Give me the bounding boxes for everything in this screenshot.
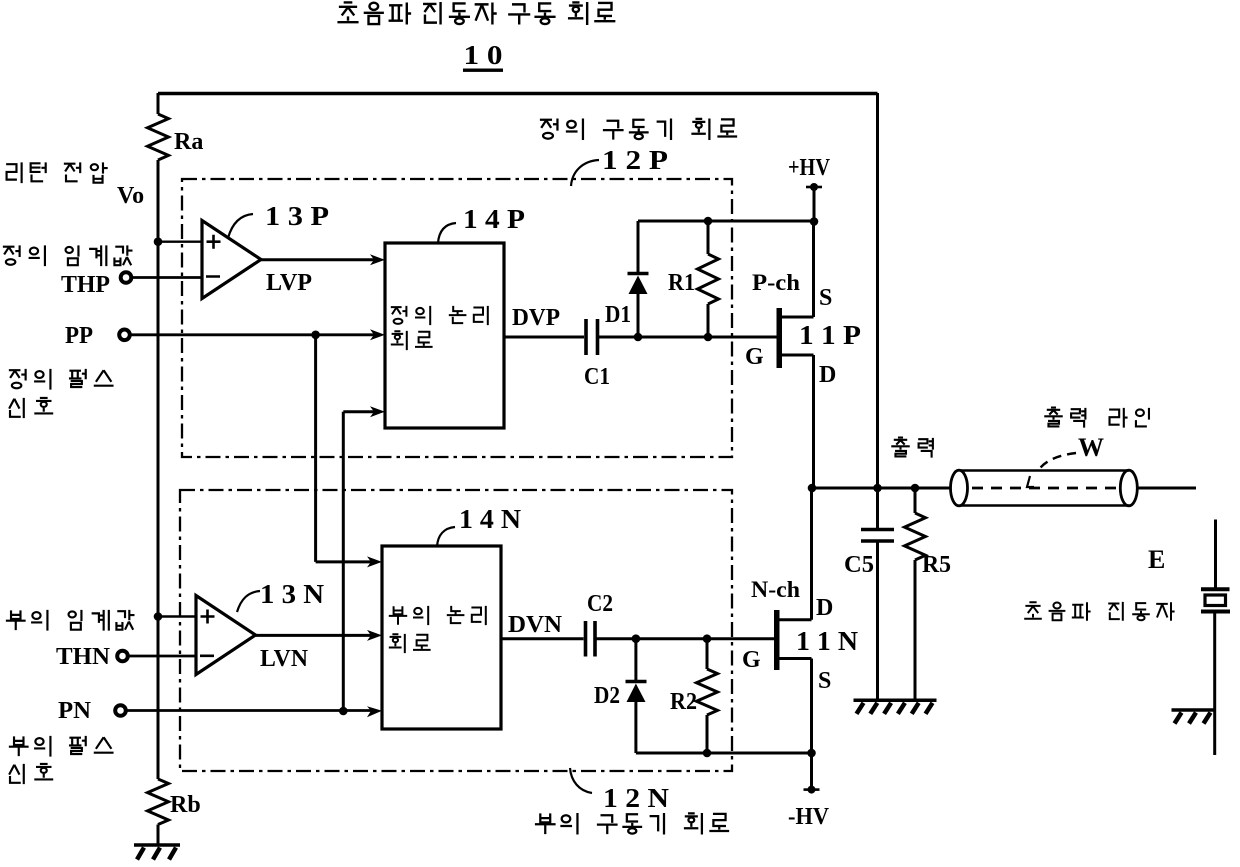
resistor R5 xyxy=(914,488,917,513)
node output drain junction xyxy=(808,484,817,493)
svg-text:1 3 N: 1 3 N xyxy=(260,579,325,609)
wire 11P source vertical xyxy=(812,221,815,317)
wire output after coax xyxy=(1138,487,1197,490)
terminal PN xyxy=(115,705,126,716)
node D2 top xyxy=(632,634,641,643)
svg-text:1 0: 1 0 xyxy=(464,40,503,70)
svg-text:R1: R1 xyxy=(668,270,695,296)
wire gate line to R1 node xyxy=(638,336,708,339)
wire C2 to gate node xyxy=(597,637,636,640)
svg-text:Rb: Rb xyxy=(170,792,201,818)
label positive driver circuit (정의 구동기 회로) xyxy=(540,118,558,138)
label negative logic (부의 논리) xyxy=(389,606,407,624)
wire top feedback line xyxy=(158,92,878,96)
driver box 12N (dash-dot border) xyxy=(180,490,732,771)
svg-text:C1: C1 xyxy=(584,364,610,390)
leader to 14N xyxy=(437,527,455,546)
ground under C5 R5 xyxy=(854,699,937,703)
wire gate line to 11N gate xyxy=(707,637,775,640)
svg-text:PP: PP xyxy=(65,323,93,349)
driver box 12P (dash-dot border) xyxy=(182,179,732,457)
label output line (출력 라인) xyxy=(1044,408,1062,427)
wire C1 to gate node xyxy=(599,336,638,339)
label negative logic line2 (회로) xyxy=(389,634,405,653)
svg-text:1 1 P: 1 1 P xyxy=(799,320,861,350)
node R2 bottom xyxy=(703,749,712,758)
wire PP branch to 14N first input xyxy=(316,560,371,563)
wire left main vertical (Vo rail) xyxy=(157,160,160,779)
wire PN up branch xyxy=(342,412,345,712)
wire right feedback vertical xyxy=(876,93,879,528)
node R2 top xyxy=(703,634,712,643)
node R1 top xyxy=(704,217,713,226)
wire DVN from 14N to C2 xyxy=(501,637,584,640)
label negative driver circuit (부의 구동기 회로) xyxy=(535,813,556,834)
svg-text:1 1 N: 1 1 N xyxy=(796,626,859,656)
node output R5 junction xyxy=(911,484,920,493)
svg-text:N-ch: N-ch xyxy=(751,577,800,602)
wire 13P plus input xyxy=(158,240,202,242)
svg-text:S: S xyxy=(818,668,831,694)
transistor Q 11P (P-ch) xyxy=(781,316,814,319)
diode D1 xyxy=(637,221,640,273)
capacitor C5 xyxy=(861,530,894,542)
capacitor C2 xyxy=(586,621,596,657)
wire transducer lead bottom xyxy=(1213,613,1216,755)
label ultrasonic vibrator (초음파 진동자) xyxy=(1024,602,1042,618)
wire THP to 13P minus input xyxy=(131,276,202,279)
svg-text:G: G xyxy=(742,647,761,673)
svg-text:P-ch: P-ch xyxy=(752,270,800,295)
node source rail -HV junction xyxy=(807,749,816,758)
wire bottom source rail xyxy=(636,752,812,755)
label positive threshold (정의 임계값) xyxy=(3,245,20,264)
wire transducer lead top xyxy=(1214,520,1217,589)
leader to 12N xyxy=(570,768,592,793)
wire 13N plus input xyxy=(158,615,196,617)
wire left main vertical (upper) xyxy=(157,93,160,114)
node D1 bottom xyxy=(634,333,643,342)
ground below Rb xyxy=(134,843,180,847)
leader to 14P xyxy=(438,223,456,243)
wire output line xyxy=(812,487,951,490)
wire Rb to ground xyxy=(157,825,160,846)
svg-text:C2: C2 xyxy=(587,591,613,617)
svg-text:Vo: Vo xyxy=(117,183,144,209)
wire 11N drain vertical xyxy=(810,488,813,620)
wire LVN output to 14N xyxy=(256,634,372,637)
logic box 14P xyxy=(385,243,504,428)
svg-text:+HV: +HV xyxy=(788,155,831,181)
svg-text:D1: D1 xyxy=(605,302,631,328)
title text: ultrasonic vibrator driving circuit xyxy=(337,2,358,22)
node B: Vo to comparator 13N plus input xyxy=(154,612,163,621)
svg-text:DVN: DVN xyxy=(508,612,563,638)
resistor R2 xyxy=(706,639,709,669)
label return voltage (리턴 전압) xyxy=(6,162,21,183)
svg-text:1 4 N: 1 4 N xyxy=(459,504,522,534)
node A: Vo to comparator 13P plus input xyxy=(154,237,163,246)
wire C5 to ground xyxy=(876,542,879,700)
op-amp comparator 13N xyxy=(196,596,256,675)
logic box 14N xyxy=(382,546,501,729)
wire PN cross branch to 14P third input xyxy=(343,410,374,413)
transistor Q 11N (N-ch) xyxy=(780,618,812,621)
svg-text:R2: R2 xyxy=(670,689,697,715)
wire THN to 13N minus input xyxy=(128,655,196,658)
svg-text:1 4 P: 1 4 P xyxy=(463,204,525,234)
label output (출력) xyxy=(891,438,909,457)
op-amp comparator 13P xyxy=(202,221,261,299)
wire PN to 14N xyxy=(126,709,371,712)
svg-text:D: D xyxy=(819,362,836,388)
svg-text:E: E xyxy=(1148,545,1165,574)
label positive logic line2 (회로) xyxy=(391,331,407,350)
svg-text:1 3 P: 1 3 P xyxy=(265,201,329,231)
terminal -HV xyxy=(808,786,816,794)
svg-text:LVN: LVN xyxy=(260,646,309,672)
node PP branch xyxy=(311,331,320,340)
svg-text:-HV: -HV xyxy=(788,804,830,830)
label positive pulse signal (정의 펄스) xyxy=(9,369,26,388)
leader to W (dashed) xyxy=(1038,453,1076,471)
svg-text:W: W xyxy=(1078,433,1104,462)
node +HV junction xyxy=(810,217,819,226)
resistor R1 xyxy=(707,221,710,254)
ultrasonic transducer symbol xyxy=(1201,587,1230,591)
svg-text:THP: THP xyxy=(61,272,110,298)
wire gate line to 11P gate xyxy=(708,336,778,339)
leader to 13P xyxy=(228,214,253,238)
svg-text:PN: PN xyxy=(58,698,92,724)
label negative threshold (부의 임계값) xyxy=(6,610,26,630)
capacitor C1 xyxy=(586,319,598,355)
resistor Ra xyxy=(148,114,169,160)
label negative pulse signal (부의 펄스) xyxy=(9,736,29,756)
svg-text:R5: R5 xyxy=(922,552,951,578)
svg-text:1 2 P: 1 2 P xyxy=(602,145,668,175)
wire PP to 14P xyxy=(130,333,374,336)
svg-text:DVP: DVP xyxy=(512,305,560,331)
terminal +HV xyxy=(810,183,818,191)
svg-text:D: D xyxy=(816,595,833,621)
svg-text:G: G xyxy=(745,344,764,370)
wire 11N source vertical xyxy=(810,659,813,754)
svg-text:C5: C5 xyxy=(844,552,874,578)
node PN branch xyxy=(339,707,348,716)
ground at transducer xyxy=(1172,708,1215,712)
svg-text:S: S xyxy=(819,285,832,311)
leader to 12P xyxy=(571,160,599,186)
node output C5 junction xyxy=(873,484,882,493)
label negative pulse signal line2 (신호) xyxy=(9,764,24,784)
svg-text:Ra: Ra xyxy=(174,129,203,155)
wire LVP output to 14P xyxy=(261,258,374,261)
diode D2 xyxy=(634,639,637,681)
wire DVP from 14P to C1 xyxy=(504,336,584,339)
svg-text:THN: THN xyxy=(56,644,111,670)
wire PP down branch xyxy=(314,335,317,562)
wire to -HV xyxy=(810,753,813,790)
svg-text:D2: D2 xyxy=(594,683,620,709)
wire 11P drain vertical xyxy=(812,355,815,488)
wire D1 top to +HV rail xyxy=(638,220,814,223)
terminal THP xyxy=(121,272,132,283)
node R1 bottom xyxy=(704,333,713,342)
svg-text:1 2 N: 1 2 N xyxy=(603,783,670,813)
coax cable W body xyxy=(959,471,1129,506)
label positive pulse signal line2 (신호) xyxy=(9,398,24,418)
leader to 13N xyxy=(237,591,260,612)
resistor Rb xyxy=(148,779,169,825)
label positive logic (정의 논리) xyxy=(391,306,407,324)
svg-text:LVP: LVP xyxy=(266,270,312,296)
coax center conductor dashed xyxy=(972,487,1120,490)
wire gate line to R2 node xyxy=(636,637,707,640)
terminal THN xyxy=(117,651,128,662)
terminal PP xyxy=(119,330,130,341)
